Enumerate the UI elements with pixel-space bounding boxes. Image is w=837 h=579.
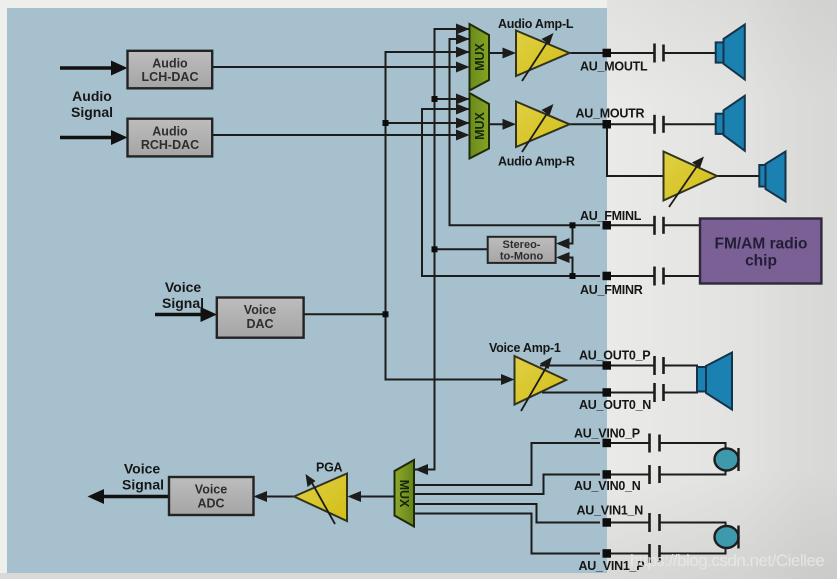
wire stereo-to-mono output — [435, 248, 489, 250]
wire headphone amp out — [716, 175, 760, 177]
svg-text:Signal: Signal — [122, 477, 164, 493]
svg-text:Audio Amp-L: Audio Amp-L — [498, 17, 574, 31]
wire Voice Amp-1 out P — [540, 365, 654, 367]
arrowhead PGA out into ADC — [254, 491, 268, 502]
junction dot MUX2 in1 tee — [432, 96, 438, 102]
junction dot MUX2 in3 tee — [383, 120, 389, 126]
node square AU_MOUTL — [603, 49, 612, 58]
resistor-like DAC box: Audio LCH-DAC — [128, 51, 213, 89]
svg-text:PGA: PGA — [316, 461, 343, 475]
wire AU_VIN1_P cap to mic — [660, 547, 726, 554]
arrowhead MUX1 in2 — [456, 34, 470, 45]
node square AU_VIN0_P — [603, 439, 612, 448]
svg-text:MUX: MUX — [473, 111, 487, 139]
svg-text:AU_FMINL: AU_FMINL — [580, 209, 642, 223]
svg-text:ADC: ADC — [197, 497, 224, 511]
capacitor C OUT0_N — [655, 383, 664, 402]
microphone MIC0 — [715, 448, 739, 471]
svg-text:AU_FMINR: AU_FMINR — [580, 283, 643, 297]
capacitor C MOUTR — [655, 115, 664, 134]
arrowhead MUX2 in4 — [456, 130, 470, 141]
wire AU_FMINL cap to FM box — [664, 224, 701, 226]
wire AU_VIN0_N cap to mic — [660, 469, 726, 475]
box: Stereo-to-Mono — [488, 237, 556, 263]
svg-text:Audio: Audio — [152, 125, 188, 139]
svg-text:Stereo-: Stereo- — [503, 239, 541, 251]
wire LCH-DAC to MUX1 — [212, 66, 466, 68]
wire AU_FMINR junction rise to stereo box — [559, 258, 573, 277]
op-amp Audio Amp-R — [516, 102, 570, 153]
voice signal arrow out of Voice ADC — [103, 495, 169, 499]
wire cap to speaker MOUTR — [664, 123, 717, 125]
wire MUX2 out — [489, 123, 513, 125]
svg-text:Voice: Voice — [195, 483, 227, 497]
svg-text:AU_VIN0_P: AU_VIN0_P — [574, 427, 640, 441]
svg-text:AU_MOUTL: AU_MOUTL — [580, 60, 648, 74]
wire V1 tee to MUX2 in3 — [386, 122, 470, 124]
wire AU_FMINR cap to FM box — [664, 275, 701, 277]
capacitor C MOUTL — [655, 44, 664, 63]
wire node to cap MOUTL — [600, 52, 654, 54]
wire MUX3 out to PGA — [351, 496, 395, 498]
wire MUX3 line2 to AU_VIN0_N — [414, 475, 600, 495]
mux U3 (MUX3, mirrored) — [395, 460, 415, 527]
microphone MIC1 — [715, 526, 739, 549]
audio signal arrow into RCH-DAC — [60, 136, 113, 140]
speaker MOUTR — [716, 96, 745, 151]
wire bus V4 (AU_FMINL net) — [450, 39, 601, 225]
arrowhead MUX2 in2 — [456, 104, 470, 115]
capacitor C OUT0_P — [655, 356, 664, 375]
wire Amp-L out to speaker — [565, 52, 654, 54]
wire Voice DAC out to bus V1 — [304, 313, 386, 315]
wire cap to speaker OUT0_P — [664, 365, 698, 367]
chip box: FM/AM radio chip — [700, 219, 821, 284]
box: Voice ADC — [169, 477, 254, 515]
svg-text:Audio: Audio — [152, 57, 188, 71]
node square AU_FMINL — [603, 221, 612, 230]
wire V3 tee to MUX2 in1 — [435, 98, 470, 100]
outer frame background — [0, 0, 620, 579]
node square AU_VIN1_N — [603, 518, 612, 527]
wire MUX3 line4 to AU_VIN1_P — [414, 514, 600, 554]
capacitor C VIN0_N — [650, 465, 660, 484]
arrowhead MUX1 out — [503, 48, 517, 59]
wire cap to speaker MOUTL — [664, 52, 717, 54]
svg-text:RCH-DAC: RCH-DAC — [141, 138, 199, 152]
speaker headphone — [759, 152, 785, 202]
audio signal arrow into LCH-DAC — [60, 66, 113, 70]
arrowhead MUX3 out into PGA — [348, 491, 362, 502]
wire arrowheads — [254, 24, 570, 503]
junction dot voice dac tee — [383, 311, 389, 317]
svg-text:Signal: Signal — [71, 104, 113, 120]
wire node to cap VIN — [611, 442, 650, 444]
svg-text:https://blog.csdn.net/Ciellee: https://blog.csdn.net/Ciellee — [630, 551, 824, 570]
wire MOUTR drop to headphone amp — [607, 128, 664, 176]
capacitor C VIN1_N — [650, 513, 660, 532]
mux U1 (MUX1) — [470, 24, 490, 91]
svg-text:DAC: DAC — [246, 317, 273, 331]
node square AU_MOUTR — [603, 120, 612, 129]
wire PGA out to Voice ADC — [257, 496, 296, 498]
arrowhead MUX2 out — [503, 119, 517, 130]
svg-text:MUX: MUX — [397, 480, 411, 508]
right gray panel — [607, 0, 837, 579]
svg-text:MUX: MUX — [473, 42, 487, 70]
capacitor C FMINL — [655, 216, 664, 235]
wire MUX1 out — [489, 52, 513, 54]
svg-text:Voice: Voice — [165, 279, 202, 295]
mux U2 (MUX2) — [470, 93, 490, 159]
wire AU_VIN0_P cap to mic — [660, 443, 726, 450]
svg-text:FM/AM radio: FM/AM radio — [715, 236, 808, 253]
arrowhead mono into MUX3 — [415, 464, 428, 475]
node square AU_OUT0_P — [603, 361, 612, 370]
arrowhead voice amp in — [501, 374, 515, 385]
svg-text:AU_MOUTR: AU_MOUTR — [576, 107, 645, 121]
capacitor C VIN1_P — [650, 544, 660, 563]
blue panel — [7, 8, 607, 573]
wire bus V3 (mono net) — [415, 29, 470, 470]
wire Voice Amp-1 out N — [542, 392, 654, 394]
svg-text:AU_VIN1_N: AU_VIN1_N — [577, 504, 644, 518]
svg-text:AU_OUT0_P: AU_OUT0_P — [579, 349, 650, 363]
svg-text:LCH-DAC: LCH-DAC — [142, 70, 199, 84]
arrowhead MUX1 in1 — [456, 24, 470, 35]
wire MUX3 line3 to AU_VIN1_N — [414, 504, 600, 523]
op-amp PGA (points left) — [294, 474, 347, 525]
node square AU_OUT0_N — [603, 388, 612, 397]
arrowhead stereo in top — [556, 238, 570, 249]
op-amp headphone amp — [664, 152, 718, 208]
wire node to cap OUT0 — [611, 365, 654, 367]
svg-text:AU_OUT0_N: AU_OUT0_N — [579, 398, 651, 412]
wire bus V2 (AU_FMINR net) — [422, 109, 600, 276]
wire cap to speaker OUT0_N — [664, 392, 698, 394]
svg-text:Voice Amp-1: Voice Amp-1 — [489, 341, 561, 355]
junction dot mono bus tee — [432, 246, 438, 252]
DAC box: Audio RCH-DAC — [128, 119, 213, 157]
arrowhead MUX1 in4 — [456, 62, 470, 73]
node square AU_VIN0_N — [603, 470, 612, 479]
svg-text:to-Mono: to-Mono — [500, 250, 544, 262]
wire bus V1 (Voice DAC net) — [386, 52, 506, 380]
svg-text:Audio: Audio — [72, 88, 112, 104]
op-amp Audio Amp-L — [516, 31, 570, 82]
wire AU_VIN1_N cap to mic — [660, 523, 726, 529]
svg-text:Voice: Voice — [124, 461, 161, 477]
arrowhead MUX1 in3 — [456, 47, 470, 58]
svg-text:AU_VIN0_N: AU_VIN0_N — [574, 479, 641, 493]
op-amp Voice Amp-1 — [515, 356, 567, 411]
svg-text:Voice: Voice — [244, 303, 276, 317]
right panel vignette top — [0, 0, 1, 1]
svg-text:chip: chip — [745, 253, 777, 270]
node square AU_VIN1_P — [603, 549, 612, 558]
thick input/output signal arrows — [60, 61, 217, 505]
capacitor C VIN0_P — [650, 434, 660, 453]
junction dot FMINR-stereo tee — [570, 273, 576, 279]
node square AU_FMINR — [603, 272, 612, 281]
speaker OUT0 — [697, 353, 732, 410]
box: Voice DAC — [217, 298, 304, 338]
wire Amp-R out to cap — [565, 123, 654, 125]
arrowhead MUX2 in1 — [456, 94, 470, 105]
voice signal arrow into Voice DAC — [155, 313, 203, 317]
wire MUX3 line1 to AU_VIN0_P — [414, 443, 600, 485]
wire node to cap segments FMIN — [611, 224, 654, 226]
arrowhead MUX2 in3 — [456, 118, 470, 129]
arrowhead stereo in bottom — [556, 252, 570, 263]
svg-text:Signal: Signal — [162, 295, 204, 311]
junction dot FMINL-stereo tee — [570, 222, 576, 228]
speaker MOUTL — [716, 25, 745, 80]
wire RCH-DAC to MUX2 — [212, 134, 466, 136]
wire AU_FMINL junction drop to stereo box — [559, 225, 573, 243]
capacitor C FMINR — [655, 267, 664, 286]
svg-text:Audio Amp-R: Audio Amp-R — [498, 155, 575, 169]
